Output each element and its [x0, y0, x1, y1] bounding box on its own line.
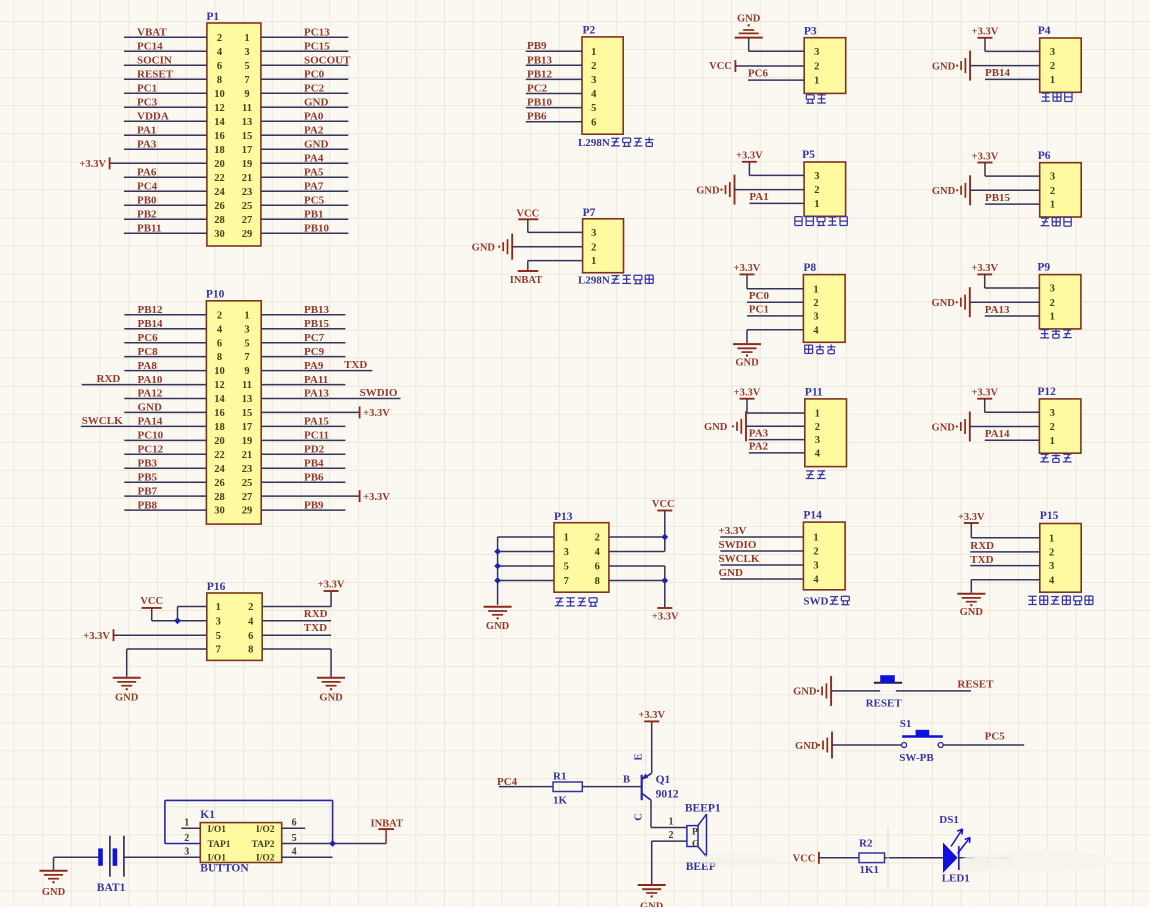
svg-text:1: 1: [814, 76, 819, 87]
svg-text:PC13: PC13: [304, 27, 330, 39]
svg-text:P13: P13: [554, 511, 573, 523]
svg-text:GND: GND: [737, 13, 761, 24]
svg-text:P15: P15: [1040, 510, 1059, 522]
svg-text:PB15: PB15: [304, 318, 330, 330]
switch RESET: [866, 675, 903, 709]
svg-text:DS1: DS1: [939, 814, 959, 826]
svg-text:1: 1: [216, 602, 221, 613]
svg-text:+3.3V: +3.3V: [79, 159, 106, 170]
svg-text:GND: GND: [932, 298, 956, 309]
svg-text:1: 1: [591, 47, 596, 58]
wire: [261, 342, 345, 344]
wire: [124, 439, 206, 441]
wire: [124, 495, 206, 497]
svg-text:1: 1: [815, 409, 820, 420]
power INBAT: [371, 818, 403, 843]
wire: [832, 744, 902, 746]
svg-text:3: 3: [1049, 561, 1054, 572]
junction: [494, 563, 501, 570]
svg-text:11: 11: [242, 380, 252, 391]
svg-text:3: 3: [244, 47, 249, 58]
svg-text:1: 1: [1050, 436, 1055, 447]
svg-text:VDDA: VDDA: [137, 111, 169, 123]
svg-text:1: 1: [1050, 312, 1055, 323]
svg-text:PB9: PB9: [304, 499, 324, 511]
svg-text:3: 3: [813, 561, 818, 572]
svg-text:1: 1: [669, 816, 674, 827]
ground: [932, 287, 970, 317]
svg-text:SOCIN: SOCIN: [137, 55, 172, 67]
wire K1 pin5 to INBAT: [282, 843, 386, 845]
svg-text:PC1: PC1: [749, 304, 769, 316]
power +3.3V: [971, 388, 998, 399]
caption bluetooth: [806, 470, 814, 472]
wire: [124, 509, 206, 511]
svg-text:PB12: PB12: [138, 304, 164, 316]
svg-text:PA7: PA7: [304, 181, 324, 193]
svg-text:+3.3V: +3.3V: [972, 27, 999, 38]
svg-text:3: 3: [814, 171, 819, 182]
svg-text:20: 20: [214, 436, 225, 447]
svg-text:22: 22: [214, 450, 225, 461]
wire: [261, 92, 348, 94]
svg-text:PC5: PC5: [304, 195, 325, 207]
wire: [124, 467, 206, 469]
svg-text:P2: P2: [583, 25, 596, 37]
svg-text:2: 2: [248, 602, 253, 613]
wire: [984, 38, 986, 52]
svg-text:PC7: PC7: [304, 332, 325, 344]
wire: [124, 148, 207, 150]
power VCC: [709, 60, 735, 72]
svg-text:P8: P8: [803, 262, 816, 274]
wire: [261, 328, 345, 330]
svg-text:18: 18: [214, 145, 225, 156]
power +3.3V: [958, 512, 985, 523]
svg-text:SWCLK: SWCLK: [82, 415, 123, 427]
svg-text:PB11: PB11: [137, 223, 161, 235]
ground: [696, 175, 734, 205]
wire: [261, 204, 348, 206]
svg-text:GND: GND: [719, 567, 744, 579]
svg-text:R1: R1: [553, 770, 566, 782]
ground: [113, 678, 141, 704]
wire: [124, 328, 206, 330]
wire: [746, 274, 748, 288]
ground: [484, 607, 512, 632]
wire: [114, 634, 207, 636]
svg-text:P9: P9: [1037, 262, 1050, 274]
wire: [985, 439, 1040, 441]
svg-text:SWD: SWD: [803, 596, 828, 608]
ground: [317, 678, 345, 704]
svg-text:P14: P14: [803, 510, 822, 522]
svg-text:3: 3: [814, 47, 819, 58]
svg-text:P1: P1: [206, 11, 219, 23]
wire: [261, 148, 348, 150]
wire: [261, 356, 345, 358]
svg-text:15: 15: [242, 408, 253, 419]
wire: [528, 231, 583, 233]
svg-text:PB8: PB8: [138, 499, 158, 511]
svg-text:PA3: PA3: [749, 427, 769, 439]
junction: [494, 577, 501, 584]
wire: [970, 580, 972, 593]
svg-text:GND: GND: [696, 186, 720, 197]
connector P5: [802, 149, 846, 216]
battery BAT1: [97, 836, 126, 894]
junction: [661, 534, 668, 541]
svg-text:PB7: PB7: [138, 485, 158, 497]
wire: [261, 162, 348, 164]
svg-text:Q1: Q1: [656, 774, 671, 786]
svg-text:PA14: PA14: [138, 416, 163, 428]
svg-text:2: 2: [813, 298, 818, 309]
svg-text:1K1: 1K1: [860, 864, 880, 876]
svg-text:15: 15: [242, 131, 253, 142]
pin stub K1-4: [282, 856, 333, 858]
svg-text:GND: GND: [115, 693, 139, 704]
svg-text:GND: GND: [735, 358, 759, 369]
caption P4: [1042, 92, 1051, 94]
wire: [261, 495, 359, 497]
svg-text:27: 27: [242, 215, 253, 226]
svg-text:BAT1: BAT1: [97, 882, 126, 894]
ground: [932, 51, 970, 81]
wire: [261, 481, 345, 483]
svg-text:2: 2: [184, 833, 189, 844]
svg-text:2: 2: [217, 33, 222, 44]
svg-text:+3.3V: +3.3V: [652, 611, 679, 622]
ground: [795, 732, 832, 759]
svg-text:PC6: PC6: [138, 332, 159, 344]
svg-text:25: 25: [242, 201, 253, 212]
svg-text:+3.3V: +3.3V: [971, 263, 998, 274]
svg-text:13: 13: [242, 117, 253, 128]
svg-text:23: 23: [242, 187, 253, 198]
svg-text:B: B: [623, 774, 630, 785]
connector P14: [803, 510, 845, 590]
svg-text:2: 2: [814, 62, 819, 73]
svg-text:20: 20: [214, 159, 225, 170]
svg-text:2: 2: [813, 547, 818, 558]
wire: [498, 551, 554, 553]
wire: [526, 107, 582, 109]
wire: [177, 607, 179, 621]
power VCC: [516, 208, 539, 219]
wire: [124, 218, 207, 220]
caption P6: [1041, 217, 1049, 219]
svg-text:VCC: VCC: [709, 61, 732, 72]
svg-text:+3.3V: +3.3V: [971, 388, 998, 399]
svg-text:2: 2: [591, 61, 596, 72]
wire: [747, 301, 803, 303]
svg-text:P: P: [692, 828, 698, 838]
wire: [152, 620, 207, 622]
power +3.3V: [638, 710, 665, 721]
svg-text:8: 8: [595, 576, 600, 587]
svg-text:PA13: PA13: [304, 388, 329, 400]
svg-text:RESET: RESET: [137, 69, 174, 81]
svg-text:4: 4: [813, 575, 819, 586]
svg-text:I/O2: I/O2: [256, 825, 275, 835]
svg-text:RESET: RESET: [866, 697, 903, 709]
svg-text:3: 3: [1050, 284, 1055, 295]
svg-text:GND: GND: [486, 621, 510, 632]
svg-text:24: 24: [214, 187, 225, 198]
svg-text:PB6: PB6: [527, 111, 547, 123]
wire: [747, 412, 805, 414]
ground: [704, 411, 746, 441]
svg-text:PC1: PC1: [137, 83, 157, 95]
svg-text:2: 2: [591, 242, 596, 253]
svg-text:PB14: PB14: [138, 318, 164, 330]
svg-text:16: 16: [214, 131, 225, 142]
wire: [971, 579, 1040, 581]
svg-text:6: 6: [292, 818, 297, 829]
wire: [985, 411, 1040, 413]
wire: [124, 398, 206, 400]
ground: [638, 885, 666, 912]
svg-text:L298N: L298N: [578, 275, 610, 287]
svg-text:TXD: TXD: [970, 554, 993, 566]
svg-text:30: 30: [214, 506, 225, 517]
wire: [748, 38, 750, 52]
svg-text:13: 13: [242, 394, 253, 405]
caption servo: [806, 94, 814, 96]
svg-text:E: E: [634, 753, 645, 760]
svg-text:GND: GND: [304, 97, 329, 109]
junction: [329, 840, 336, 847]
svg-text:PA14: PA14: [985, 428, 1010, 440]
svg-text:TAP1: TAP1: [208, 840, 231, 850]
svg-text:8: 8: [217, 75, 222, 86]
svg-text:10: 10: [214, 89, 225, 100]
connector P16: [207, 581, 262, 661]
svg-text:11: 11: [242, 103, 252, 114]
wire: [746, 330, 748, 344]
wire: [261, 190, 348, 192]
wire: [261, 64, 348, 66]
svg-text:4: 4: [292, 847, 297, 858]
svg-text:PC5: PC5: [985, 731, 1006, 743]
svg-text:GND: GND: [138, 402, 163, 414]
svg-text:19: 19: [242, 159, 253, 170]
wire: [664, 566, 666, 608]
svg-text:PB15: PB15: [985, 192, 1011, 204]
svg-text:2: 2: [814, 185, 819, 196]
wire: [124, 106, 207, 108]
svg-text:21: 21: [242, 450, 253, 461]
junction: [174, 617, 181, 624]
svg-text:PA13: PA13: [985, 304, 1010, 316]
svg-text:3: 3: [244, 324, 249, 335]
svg-text:5: 5: [591, 103, 596, 114]
wire collector down: [650, 800, 652, 827]
svg-text:1: 1: [591, 256, 596, 267]
wire: [124, 453, 206, 455]
svg-text:29: 29: [242, 229, 253, 240]
svg-text:3: 3: [1050, 408, 1055, 419]
svg-text:PA1: PA1: [137, 125, 156, 137]
svg-text:PC0: PC0: [304, 69, 325, 81]
wire: [746, 399, 748, 413]
wire: [261, 106, 348, 108]
svg-text:12: 12: [214, 103, 225, 114]
svg-text:6: 6: [217, 338, 222, 349]
smudge artifacts: [970, 850, 1114, 872]
wire: [735, 189, 805, 191]
wire: [127, 648, 207, 650]
connector P15: [1040, 510, 1081, 592]
wire: [526, 78, 582, 80]
svg-text:+3.3V: +3.3V: [734, 388, 761, 399]
svg-text:GND: GND: [793, 687, 817, 698]
connector P7: [583, 207, 624, 273]
svg-text:TAP2: TAP2: [251, 840, 274, 850]
svg-text:1: 1: [814, 199, 819, 210]
svg-text:2: 2: [1050, 422, 1055, 433]
wire: [124, 411, 206, 413]
wire: [261, 453, 345, 455]
svg-text:S1: S1: [900, 718, 912, 730]
wire: [664, 511, 666, 552]
power +3.3V: [83, 629, 113, 642]
wire: [747, 288, 803, 290]
wire: [124, 481, 206, 483]
wire bus left: [497, 537, 499, 605]
svg-text:PC14: PC14: [137, 41, 163, 53]
svg-text:1: 1: [244, 33, 249, 44]
svg-text:PB5: PB5: [138, 471, 158, 483]
svg-text:P10: P10: [206, 289, 225, 301]
ground: [40, 871, 68, 898]
svg-text:GND: GND: [932, 422, 956, 433]
svg-text:P12: P12: [1037, 386, 1056, 398]
svg-text:PC0: PC0: [749, 290, 770, 302]
svg-text:3: 3: [1050, 172, 1055, 183]
svg-text:8: 8: [248, 645, 253, 656]
svg-text:2: 2: [1050, 298, 1055, 309]
wire: [885, 857, 944, 859]
svg-text:5: 5: [244, 338, 249, 349]
svg-text:7: 7: [244, 75, 249, 86]
svg-text:3: 3: [591, 228, 596, 239]
svg-text:VCC: VCC: [793, 854, 816, 865]
svg-text:7: 7: [216, 645, 221, 656]
svg-text:2: 2: [1050, 61, 1055, 72]
connector P4: [1038, 25, 1082, 92]
svg-text:PA8: PA8: [138, 360, 158, 372]
power VCC: [652, 499, 675, 511]
ground: [957, 594, 985, 618]
wire: [959, 857, 1012, 859]
svg-text:P11: P11: [805, 387, 823, 399]
svg-text:+3.3V: +3.3V: [736, 151, 763, 162]
power +3.3V: [652, 608, 679, 622]
svg-text:BEEP1: BEEP1: [685, 802, 721, 814]
svg-text:PB4: PB4: [304, 457, 324, 469]
wire: [984, 274, 986, 288]
svg-text:VBAT: VBAT: [137, 27, 167, 39]
wire: [651, 827, 687, 829]
svg-text:2: 2: [595, 533, 600, 544]
svg-text:1: 1: [1050, 75, 1055, 86]
svg-text:5: 5: [564, 562, 569, 573]
wire: [261, 425, 345, 427]
wire: [527, 219, 529, 232]
svg-text:7: 7: [564, 576, 569, 587]
svg-text:SWDIO: SWDIO: [360, 387, 398, 399]
wire: [124, 134, 207, 136]
wire: [720, 550, 803, 552]
wire: [81, 425, 206, 427]
svg-text:27: 27: [242, 492, 253, 503]
svg-text:19: 19: [242, 436, 253, 447]
power INBAT: [510, 271, 542, 286]
svg-text:PA15: PA15: [304, 416, 329, 428]
svg-text:21: 21: [242, 173, 253, 184]
transistor Q1 9012: [623, 753, 679, 820]
svg-text:5: 5: [216, 631, 221, 642]
wire: [124, 190, 207, 192]
svg-text:3: 3: [216, 616, 221, 627]
wire: [970, 189, 1040, 191]
wire: [749, 50, 805, 52]
resistor R1: [553, 770, 582, 806]
wire: [124, 856, 200, 858]
svg-text:PB12: PB12: [527, 68, 553, 80]
connector P3: [804, 25, 846, 93]
svg-text:3: 3: [184, 847, 189, 858]
svg-text:PB3: PB3: [138, 457, 158, 469]
ground: [53, 857, 55, 870]
svg-text:P4: P4: [1038, 25, 1051, 37]
wire: [735, 65, 804, 67]
wire: [720, 578, 803, 580]
svg-text:VCC: VCC: [140, 596, 163, 607]
svg-text:+3.3V: +3.3V: [83, 631, 110, 642]
svg-text:PC11: PC11: [304, 430, 329, 442]
wire: [124, 370, 206, 372]
speaker BEEP1: [669, 802, 721, 873]
svg-text:4: 4: [217, 324, 223, 335]
wire: [512, 246, 582, 248]
wire: [985, 78, 1040, 80]
svg-text:PB0: PB0: [137, 195, 157, 207]
svg-text:INBAT: INBAT: [510, 275, 542, 286]
svg-text:PB9: PB9: [527, 40, 547, 52]
wire: [261, 78, 348, 80]
connector P11: [805, 387, 847, 467]
connector P12: [1037, 386, 1081, 453]
caption P12: [1041, 453, 1049, 455]
svg-text:I/O2: I/O2: [256, 854, 275, 864]
wire: [748, 162, 750, 176]
wire: [749, 439, 805, 441]
svg-text:+3.3V: +3.3V: [638, 710, 665, 721]
svg-text:PB2: PB2: [137, 209, 157, 221]
wire: [261, 120, 348, 122]
svg-text:18: 18: [214, 422, 225, 433]
wire: [124, 64, 207, 66]
wire: [124, 356, 206, 358]
switch S1 SW-PB: [899, 718, 943, 764]
svg-text:12: 12: [214, 380, 225, 391]
svg-text:29: 29: [242, 506, 253, 517]
wire: [54, 856, 100, 858]
svg-text:P6: P6: [1038, 150, 1051, 162]
